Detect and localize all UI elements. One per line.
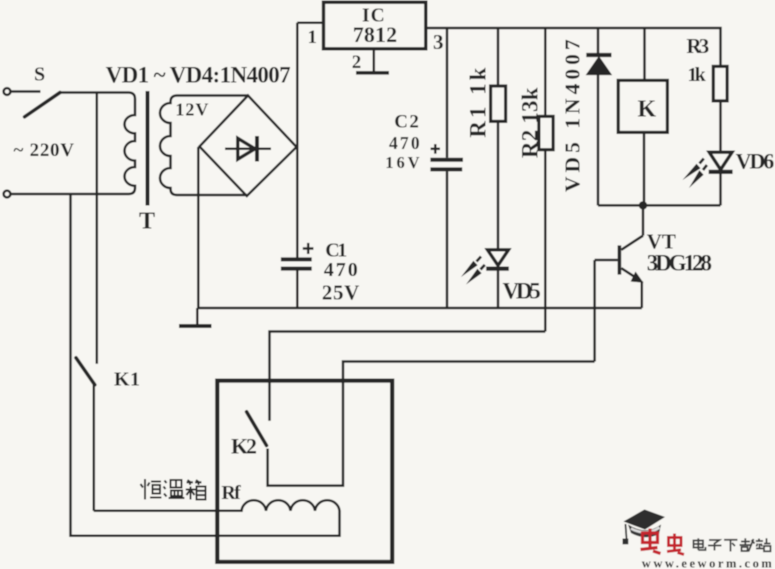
svg-text:R2 13k: R2 13k bbox=[518, 87, 543, 158]
svg-text:K: K bbox=[638, 96, 657, 122]
svg-text:25V: 25V bbox=[322, 280, 359, 304]
svg-text:C2: C2 bbox=[394, 112, 419, 133]
svg-text:VD1 ~ VD4:1N4007: VD1 ~ VD4:1N4007 bbox=[106, 62, 291, 87]
svg-text:R3: R3 bbox=[686, 34, 709, 58]
svg-text:1k: 1k bbox=[687, 64, 706, 86]
svg-text:Rf: Rf bbox=[221, 482, 241, 504]
svg-text:16V: 16V bbox=[385, 153, 419, 172]
svg-text:2: 2 bbox=[352, 52, 362, 73]
svg-text:S: S bbox=[34, 64, 45, 86]
svg-text:470: 470 bbox=[389, 133, 420, 153]
svg-text:K1: K1 bbox=[114, 369, 140, 391]
svg-text:12V: 12V bbox=[175, 100, 208, 120]
svg-text:T: T bbox=[139, 208, 155, 234]
svg-text:3DG128: 3DG128 bbox=[647, 251, 712, 276]
svg-text:470: 470 bbox=[324, 259, 358, 281]
svg-text:3: 3 bbox=[433, 30, 444, 54]
svg-text:VD6: VD6 bbox=[736, 149, 775, 174]
svg-text:VD5: VD5 bbox=[503, 279, 541, 304]
svg-text:1: 1 bbox=[308, 27, 318, 48]
svg-text:7812: 7812 bbox=[353, 22, 397, 47]
svg-text:~ 220V: ~ 220V bbox=[14, 140, 75, 161]
svg-text:R1 1k: R1 1k bbox=[466, 67, 491, 137]
svg-text:K2: K2 bbox=[231, 434, 257, 459]
